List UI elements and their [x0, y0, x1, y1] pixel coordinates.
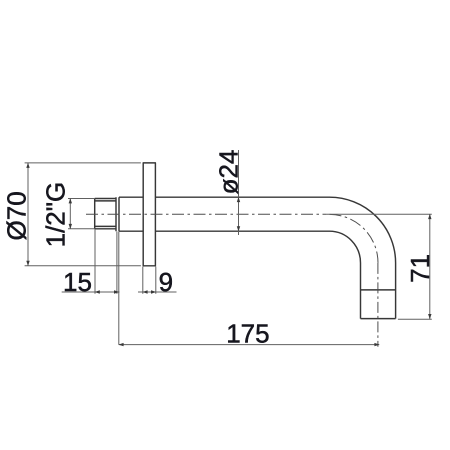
arrow Ø24 top: [237, 197, 240, 202]
dim 9 line: [138, 291, 177, 293]
arrow 15 left: [95, 290, 100, 293]
dim 71 top extension: [326, 213, 432, 215]
arrow 15 right: [114, 290, 119, 293]
dim 71 vertical line: [429, 214, 431, 319]
dim 71 bottom extension: [398, 318, 432, 320]
tube bottom edge: [119, 230, 143, 232]
arrow 71 top: [428, 214, 431, 219]
thread inner lines: [95, 201, 116, 227]
extension from step inner: [116, 232, 118, 294]
arrow 1/2G bottom: [69, 224, 72, 229]
dim Ø70 vertical line: [27, 163, 29, 266]
svg-text:9: 9: [159, 267, 173, 297]
dim Ø24 vertical line: [238, 150, 240, 235]
svg-text:1/2"G: 1/2"G: [40, 182, 70, 248]
arrow Ø70 bottom: [26, 261, 29, 266]
dim 15 line: [62, 291, 120, 293]
arrow 9 left: [142, 290, 147, 293]
dim 1/2G bottom extension: [68, 228, 95, 230]
dim Ø70 top extension: [25, 162, 141, 164]
flange plate: [143, 163, 155, 266]
arrow Ø70 top: [26, 163, 29, 168]
dim 175 line: [119, 344, 379, 346]
dim Ø70 bottom extension: [25, 265, 141, 267]
tube top edge: [119, 196, 143, 198]
arrow 71 bottom: [428, 314, 431, 319]
svg-text:Ø70: Ø70: [2, 191, 32, 240]
arrow 1/2G top: [69, 198, 72, 203]
svg-text:15: 15: [63, 267, 92, 297]
dim 1/2G vertical line: [69, 199, 71, 229]
arrow 175 left: [118, 343, 123, 346]
aerator ring line: [361, 289, 396, 291]
dim 9 left extension: [142, 267, 144, 294]
step face double line: [116, 197, 119, 231]
svg-text:175: 175: [226, 319, 269, 349]
arrow Ø24 bottom: [237, 226, 240, 231]
dim 1/2G top extension: [68, 198, 95, 200]
thread 1/2"G nipple outline: [95, 199, 116, 229]
arrow 175 right: [374, 343, 379, 346]
dim 15 left extension: [94, 229, 96, 294]
dim 9 right extension: [155, 267, 157, 294]
shared extension to 175: [118, 232, 120, 345]
arrow 9 right: [151, 290, 156, 293]
bend centerline arc: [330, 214, 379, 263]
tube end line: [361, 318, 396, 320]
svg-text:ø24: ø24: [213, 150, 243, 195]
horizontal centerline: [86, 213, 326, 215]
svg-text:71: 71: [405, 254, 435, 283]
centerlines: [86, 214, 378, 347]
drop centerline: [377, 263, 379, 347]
